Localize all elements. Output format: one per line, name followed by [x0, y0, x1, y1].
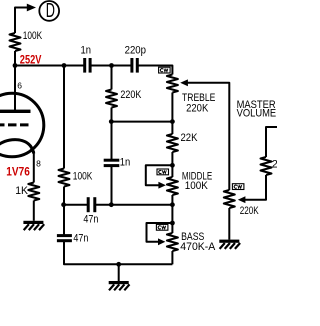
svg-text:47n: 47n	[73, 232, 88, 244]
MV wiper arrow	[238, 196, 246, 203]
potentiometer TREBLE 220K body	[167, 75, 178, 93]
wire 22K to middle pot	[171, 152, 173, 177]
CW box bass	[156, 224, 168, 230]
resistor R 100K left rail	[59, 169, 70, 187]
wire ground mid stub	[118, 264, 120, 281]
svg-text:D: D	[46, 0, 55, 22]
node D circle	[39, 1, 59, 21]
wire left rail bottom to ground bus	[64, 241, 172, 265]
wire treble bottom to 22K	[171, 93, 173, 135]
capacitor 47n vertical	[57, 236, 72, 241]
wire 220p to treble top	[137, 66, 172, 75]
resistor R 220K series	[106, 90, 117, 108]
ground bottom bus	[109, 281, 130, 290]
svg-text:220K: 220K	[120, 89, 141, 101]
wire node Y horizontal	[112, 121, 173, 123]
tube cathode	[0, 140, 34, 154]
svg-text:22K: 22K	[181, 132, 199, 144]
svg-text:8: 8	[36, 158, 41, 168]
svg-text:1K: 1K	[15, 185, 28, 197]
svg-text:1n: 1n	[81, 45, 92, 57]
tube grid dashes	[0, 123, 30, 126]
svg-text:6: 6	[17, 81, 22, 91]
svg-text:220p: 220p	[125, 45, 146, 57]
wire between 1n and 220p	[90, 65, 132, 67]
svg-text:252V: 252V	[20, 52, 42, 66]
svg-text:47n: 47n	[83, 213, 98, 225]
svg-text:470K-A: 470K-A	[180, 241, 216, 253]
svg-text:1V76: 1V76	[6, 164, 30, 178]
arrow to node D	[27, 4, 36, 12]
capacitor 1n coupling	[85, 58, 90, 73]
wire to node D	[15, 8, 28, 34]
CW box middle	[157, 169, 169, 175]
capacitor 1n mid	[104, 160, 120, 165]
svg-text:220K: 220K	[186, 102, 209, 114]
tube plate bar	[0, 110, 31, 113]
svg-text:VOLUME: VOLUME	[237, 107, 277, 119]
CW box treble	[159, 67, 171, 73]
wire 220K rail top	[111, 66, 113, 90]
bass wiper arrow	[158, 238, 165, 245]
ground cathode	[23, 221, 44, 230]
resistor R 100K plate	[10, 33, 21, 51]
ground master volume	[219, 240, 240, 249]
potentiometer MASTER VOLUME 220K body	[224, 190, 235, 208]
svg-text:100K: 100K	[185, 180, 209, 192]
capacitor 47n horizontal	[88, 197, 95, 212]
wire treble wiper to master volume	[185, 83, 230, 190]
resistor right edge	[261, 157, 272, 175]
middle wiper arrow	[158, 182, 166, 189]
junction node dots	[13, 63, 175, 267]
wire left rail upper	[63, 66, 65, 169]
wire bass wiper loop	[147, 223, 173, 242]
wire 220K rail middle	[111, 108, 113, 161]
resistor R 1K cathode	[28, 183, 39, 201]
wire MV wiper to right resistor	[244, 175, 266, 200]
wire 47n bus right	[95, 204, 173, 206]
treble wiper arrow	[180, 79, 188, 86]
wire 1n rail bottom	[111, 166, 113, 205]
CW box master volume	[232, 184, 244, 190]
svg-text:100K: 100K	[23, 30, 43, 42]
wire cathode to 1K	[33, 151, 35, 183]
wire middle pot to bass pot	[171, 195, 173, 233]
wire left rail lower	[63, 187, 65, 236]
wire right resistor top to edge	[266, 127, 277, 157]
svg-text:220K: 220K	[240, 205, 259, 217]
wire 47n bus	[64, 204, 88, 206]
wire plate rail	[14, 51, 16, 110]
potentiometer MIDDLE 100K body	[167, 177, 178, 195]
svg-text:100K: 100K	[73, 171, 93, 183]
svg-text:1n: 1n	[120, 156, 131, 168]
wire MV pot bottom	[228, 208, 230, 240]
wire middle wiper loop	[146, 165, 173, 185]
wire 1K to ground	[33, 201, 35, 221]
capacitor 220p	[132, 58, 137, 73]
wire bass bottom	[171, 251, 173, 264]
tube V1 envelope	[0, 93, 44, 157]
wire plate node horizontal bus	[15, 65, 85, 67]
svg-text:220K: 220K	[272, 159, 277, 171]
potentiometer BASS 470K-A body	[167, 233, 178, 251]
resistor R 22K	[167, 134, 178, 152]
